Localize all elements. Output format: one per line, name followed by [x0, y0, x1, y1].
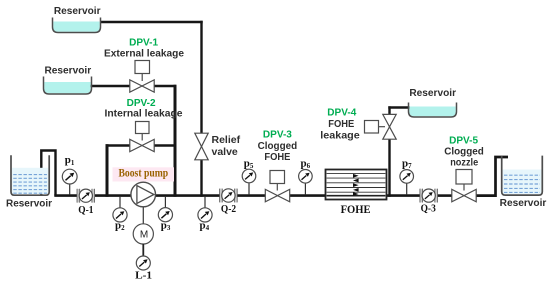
svg-text:valve: valve: [212, 146, 238, 158]
svg-text:leakage: leakage: [320, 129, 360, 141]
label reservoir 1: [54, 5, 101, 17]
label external leakage: [104, 47, 184, 59]
svg-text:Reservoir: Reservoir: [409, 87, 456, 99]
label left supply reservoir: [6, 197, 52, 209]
label relief valve: [212, 134, 241, 158]
label right return reservoir: [500, 197, 547, 209]
wire main line: FOHE to Q-3: [386, 194, 421, 197]
reservoir tank 1 (top left): [53, 18, 101, 33]
wire motor to level gauge: [142, 244, 144, 256]
valve DPV-3 actuator: [270, 171, 285, 191]
gauge p2 stem: [119, 197, 121, 208]
wire relief valve to main line: [200, 159, 202, 197]
motor M: [133, 224, 153, 244]
label reservoir 4: [409, 87, 456, 99]
svg-text:Q-3: Q-3: [421, 202, 437, 214]
svg-text:Reservoir: Reservoir: [44, 65, 91, 77]
wire main line: Q-2 to valve DPV-3: [237, 194, 266, 197]
label p5: [244, 158, 254, 171]
label FOHE leakage: [320, 118, 360, 141]
right return reservoir tank: [502, 156, 543, 196]
valve DPV-5 actuator: [456, 170, 472, 191]
label DPV-4: [327, 107, 356, 119]
svg-text:FOHE: FOHE: [328, 118, 354, 130]
label p1: [65, 154, 75, 167]
valve DPV-5 body: [452, 189, 476, 201]
flow meter Q-2: [220, 189, 237, 203]
label p2: [115, 220, 125, 233]
label p4: [199, 220, 209, 233]
valve DPV-4 body: [383, 114, 396, 139]
gauge p1: [62, 169, 77, 184]
svg-text:DPV-3: DPV-3: [263, 128, 292, 140]
label DPV-1: [129, 37, 158, 49]
wire bypass right riser: [174, 85, 177, 197]
wire reservoir-2 outlet to valve DPV-1: [91, 85, 131, 88]
label p3: [161, 220, 171, 233]
gauge p4: [198, 208, 212, 222]
wire main line: Q-1 to boost pump: [94, 194, 131, 197]
relief valve body: [195, 133, 208, 160]
label FOHE: [341, 202, 371, 216]
wire valve DPV-4 to reservoir-4: [388, 106, 409, 115]
reservoir tank 2 (left middle): [44, 77, 92, 95]
wire main line: valve DPV-3 to FOHE: [289, 194, 326, 197]
wire valve DPV-2 left leg: [106, 144, 131, 197]
gauge p6 stem: [304, 183, 306, 195]
boost pump P1: [131, 182, 156, 207]
label DPV-3: [263, 128, 292, 140]
gauge p3 stem: [164, 197, 166, 208]
flow meter Q-1: [77, 189, 94, 203]
label boost pump: [118, 168, 168, 180]
svg-text:Relief: Relief: [212, 134, 241, 146]
svg-text:Internal leakage: Internal leakage: [105, 107, 183, 119]
svg-text:Reservoir: Reservoir: [6, 197, 52, 209]
label DPV-2: [127, 97, 156, 109]
label p7: [402, 158, 412, 171]
label p6: [300, 158, 310, 171]
label Q-3: [421, 202, 437, 214]
heat exchanger FOHE: [326, 170, 387, 200]
label clogged FOHE: [258, 140, 298, 163]
svg-text:Reservoir: Reservoir: [500, 197, 547, 209]
svg-text:Q-1: Q-1: [78, 204, 93, 216]
label clogged nozzle: [444, 146, 484, 169]
wire valve DPV-4 riser to main line: [388, 139, 390, 197]
wire main line: suction to Q-1: [54, 194, 77, 197]
gauge p7: [400, 170, 414, 184]
svg-text:M: M: [140, 230, 148, 241]
wire main line: Q-3 to valve DPV-5: [437, 194, 452, 197]
valve DPV-1 body: [130, 80, 154, 92]
svg-text:Boost pump: Boost pump: [118, 168, 168, 180]
svg-text:External leakage: External leakage: [104, 47, 184, 59]
wire valve DPV-2 to bypass right riser: [154, 144, 176, 147]
gauge p5 stem: [248, 183, 250, 195]
gauge p5: [242, 169, 256, 183]
svg-text:FOHE: FOHE: [264, 151, 290, 163]
wire pump to motor: [142, 207, 144, 224]
boost pump label box: [113, 167, 175, 181]
valve DPV-4 actuator: [365, 121, 386, 134]
gauge p7 stem: [406, 183, 408, 195]
label reservoir 2: [44, 65, 91, 77]
valve DPV-1 actuator: [135, 61, 150, 82]
valve DPV-2 body: [130, 139, 154, 151]
level gauge L-1: [136, 256, 150, 270]
wire reservoir-1 outlet to relief valve: [100, 21, 203, 134]
gauge p1 stem: [69, 184, 71, 195]
wire main line: boost pump to Q-2: [155, 194, 220, 197]
left supply reservoir tank: [11, 155, 49, 195]
wire suction pipe from left reservoir: [41, 151, 55, 196]
svg-text:DPV-4: DPV-4: [327, 107, 356, 119]
valve DPV-2 actuator: [136, 122, 150, 141]
label Q-2: [221, 203, 237, 215]
gauge p2: [113, 208, 127, 222]
svg-text:FOHE: FOHE: [341, 202, 371, 216]
gauge p3: [158, 208, 172, 222]
label DPV-5: [449, 135, 478, 147]
gauge p4 stem: [204, 197, 206, 208]
label Q-1: [78, 204, 93, 216]
gauge p6: [299, 170, 313, 184]
label L-1: [135, 270, 152, 282]
wire main line: valve DPV-5 to right reservoir: [476, 157, 509, 196]
wire valve DPV-1 to bypass right riser: [154, 85, 177, 88]
svg-text:Reservoir: Reservoir: [54, 5, 101, 17]
svg-text:Q-2: Q-2: [221, 203, 237, 215]
reservoir tank 4 (upper right): [409, 103, 457, 118]
svg-text:nozzle: nozzle: [450, 156, 478, 168]
label internal leakage: [105, 107, 183, 119]
valve DPV-3 body: [265, 189, 289, 201]
flow meter Q-3: [420, 189, 437, 203]
svg-text:L-1: L-1: [135, 270, 152, 282]
